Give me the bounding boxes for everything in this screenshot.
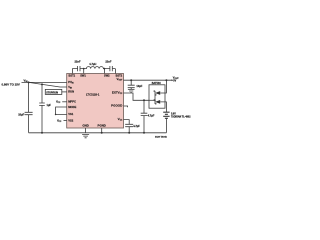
svg-text:RUN: RUN [68,90,74,94]
svg-text:SW1: SW1 [80,74,86,78]
svg-text:VCC: VCC [57,119,62,123]
svg-text:22nF: 22nF [74,59,80,63]
svg-text:STOP/RUN: STOP/RUN [46,92,58,94]
svg-text:22nF: 22nF [105,59,111,63]
svg-text:0.86V TO 15V: 0.86V TO 15V [2,82,20,86]
svg-text:MPPC: MPPC [68,100,76,104]
svg-text:1µF: 1µF [47,103,52,107]
svg-text:VS2: VS2 [68,118,74,122]
svg-text:4.7µH: 4.7µH [89,62,96,66]
svg-text:4.7µF: 4.7µF [133,124,140,128]
svg-text:BST1: BST1 [68,74,75,78]
svg-text:3129 TA01b: 3129 TA01b [155,136,168,139]
svg-text:MODE: MODE [68,105,76,109]
svg-text:PGND: PGND [98,123,106,127]
svg-text:LTC3129-1: LTC3129-1 [86,93,100,97]
svg-text:VCC: VCC [56,100,61,104]
svg-text:GND: GND [82,123,88,127]
svg-text:10µF: 10µF [136,84,142,88]
svg-text:10µF: 10µF [18,113,24,117]
svg-text:3.6V: 3.6V [171,113,176,115]
svg-text:PGOOD: PGOOD [111,104,123,108]
svg-text:TADIRAN TL-4902: TADIRAN TL-4902 [171,116,191,119]
svg-text:VS1: VS1 [68,112,74,116]
svg-text:SW2: SW2 [104,74,110,78]
svg-text:BAT54C: BAT54C [152,82,161,85]
svg-text:4.7µF: 4.7µF [148,114,155,118]
svg-text:5V: 5V [173,79,176,82]
